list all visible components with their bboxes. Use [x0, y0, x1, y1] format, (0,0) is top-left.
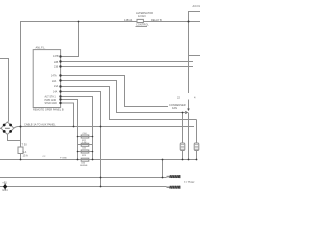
capacitor C2: [196, 120, 198, 144]
resistor ladder rung3: [78, 151, 93, 153]
svg-text:SENSE: SENSE: [80, 165, 88, 167]
capacitor C1: [182, 113, 184, 144]
wire L1-L2 link: [162, 160, 164, 178]
svg-text:21B: 21B: [54, 65, 59, 68]
diode D1: [3, 184, 7, 189]
alternator label underline: [136, 25, 148, 27]
fusible link box U1: [33, 50, 60, 108]
fuse F2: [18, 147, 23, 154]
resistor F1 alternator feed: [137, 19, 143, 22]
svg-text:f = 75 Hz: f = 75 Hz: [184, 180, 195, 184]
wire pin2: [61, 61, 194, 63]
fan shroud box top right: [189, 12, 207, 56]
svg-text:RELAY B: RELAY B: [151, 18, 162, 22]
wire pin5 fan: [61, 81, 187, 113]
capacitor hatch C1: [181, 145, 184, 150]
shielded cable W1: [167, 175, 181, 178]
resistor ladder rung4 on L1: [81, 158, 89, 161]
wire left rail: [20, 22, 22, 148]
resistor ladder rung2: [78, 144, 93, 146]
wire pin3: [61, 66, 194, 68]
wire right bus V_R: [188, 56, 190, 94]
wire connector bottom: [8, 134, 21, 140]
wire connector right: [14, 127, 194, 129]
connector J1 body: [1, 122, 14, 134]
svg-text:1.2K: 1.2K: [82, 142, 87, 144]
wire pin9 ladder left rail: [61, 100, 78, 160]
connector center dash: [5, 127, 10, 129]
svg-text:GN4: GN4: [2, 188, 8, 192]
wire stub left edge: [0, 59, 9, 122]
capacitor hatch C2: [195, 145, 198, 150]
wire L2: [0, 177, 167, 179]
svg-text:FAN: FAN: [172, 106, 177, 110]
pin labels: [45, 55, 59, 105]
svg-text:ANL F.L.: ANL F.L.: [36, 46, 46, 50]
pin arrow A: [185, 111, 187, 114]
svg-text:A/C FAN: A/C FAN: [193, 4, 201, 8]
wire bottom rail L1: [0, 159, 197, 161]
wire pin4 fan: [61, 76, 169, 107]
wire pin7 drop: [61, 92, 101, 187]
connector J1 pins: [3, 124, 12, 133]
wire pin6 fan: [61, 87, 197, 120]
svg-text:22B: 22B: [54, 61, 59, 64]
svg-text:CONTROL: CONTROL: [136, 23, 149, 27]
connector left tick: [0, 127, 1, 129]
svg-text:& FAN: & FAN: [138, 14, 146, 18]
wire pin10: [61, 103, 74, 127]
resistor ladder rung1: [78, 136, 93, 138]
svg-text:15 A: 15 A: [23, 153, 28, 157]
wire pin8 ladder right rail: [61, 97, 93, 160]
svg-text:REMOTE OPER PANEL B: REMOTE OPER PANEL B: [33, 107, 64, 111]
shielded cable W2: [167, 186, 181, 189]
svg-text:T 30: T 30: [22, 143, 28, 147]
svg-text:14B A4: 14B A4: [124, 18, 133, 22]
wire top rail: [20, 21, 137, 23]
svg-text:+B1: +B1: [2, 180, 7, 184]
ladder labels: [43, 133, 88, 167]
wire L3: [0, 186, 167, 188]
svg-text:14A: 14A: [53, 91, 58, 94]
labels (tiny illegible text): [2, 4, 203, 192]
svg-text:147B: 147B: [53, 55, 59, 58]
svg-text:22A: 22A: [52, 80, 57, 83]
svg-text:SHLD GND: SHLD GND: [45, 102, 58, 105]
svg-text:P GND: P GND: [60, 157, 67, 159]
svg-text:CABLE-1A TO AUX PANEL: CABLE-1A TO AUX PANEL: [24, 123, 56, 127]
svg-text:147A: 147A: [51, 75, 57, 78]
svg-text:21A: 21A: [54, 85, 59, 88]
wire pin1 riser: [61, 22, 79, 57]
connector arrow on V_R: [187, 109, 190, 112]
